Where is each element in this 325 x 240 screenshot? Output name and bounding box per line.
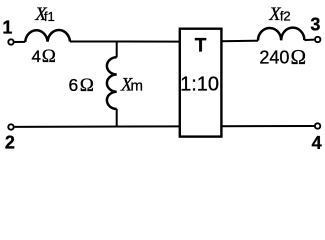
svg-text:Xm: Xm xyxy=(120,75,143,95)
svg-text:1: 1 xyxy=(2,17,12,37)
svg-text:T: T xyxy=(195,36,207,57)
svg-text:Xf2: Xf2 xyxy=(268,5,290,25)
svg-text:4: 4 xyxy=(312,133,322,149)
svg-text:3: 3 xyxy=(310,14,320,34)
svg-text:240Ω: 240Ω xyxy=(259,45,306,69)
svg-text:2: 2 xyxy=(5,133,15,149)
svg-text:4Ω: 4Ω xyxy=(32,46,56,67)
svg-text:6Ω: 6Ω xyxy=(69,75,94,96)
svg-text:1:10: 1:10 xyxy=(180,74,219,96)
